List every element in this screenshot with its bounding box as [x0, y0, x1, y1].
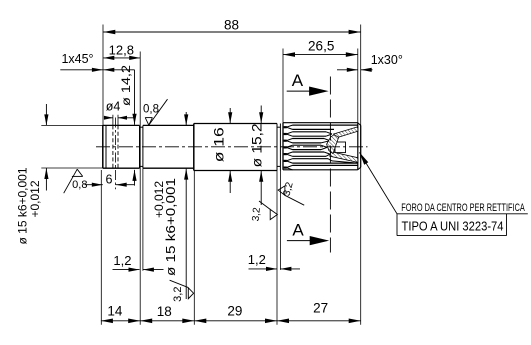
dimension 26,5 spline length: [283, 39, 358, 57]
dimension 1,2 groove2: [248, 252, 300, 271]
center hole upper hatched wing: [334, 127, 358, 138]
svg-text:ø 15,2: ø 15,2: [249, 123, 264, 167]
surface finish 0,8 on section S2: [143, 99, 168, 125]
extension line right face full: [360, 25, 362, 325]
groove G1 width 1.2 dia 14.2: [140, 125, 143, 168]
svg-text:1,2: 1,2: [113, 253, 131, 268]
extension line groove1 left edge full: [139, 52, 141, 325]
dimension chain 14: [101, 304, 140, 324]
section line A-A: [329, 77, 331, 253]
svg-text:FORO DA CENTRO PER RETTIFICA: FORO DA CENTRO PER RETTIFICA: [401, 202, 525, 214]
dimension dia15 k6 middle: [152, 112, 188, 299]
center hole cone hatched web: [327, 135, 339, 154]
svg-text:ø 15 k6+0,001: ø 15 k6+0,001: [164, 178, 178, 276]
svg-text:ø 16: ø 16: [212, 127, 227, 162]
svg-text:26,5: 26,5: [308, 39, 334, 54]
extension line spline left face top: [282, 49, 284, 123]
surface finish 3,2 groove1: [170, 280, 194, 302]
svg-text:1,2: 1,2: [248, 252, 266, 267]
chamfer dimension 1x30: [337, 53, 403, 72]
svg-text:1x45°: 1x45°: [61, 52, 93, 66]
center hole pilot bore: [335, 142, 346, 153]
dimension chain 18: [140, 304, 194, 323]
leader to centre hole: [360, 152, 528, 213]
extension groove2 right edge: [279, 171, 281, 270]
extension groove2 left edge full: [276, 171, 278, 325]
svg-text:TIPO A UNI 3223-74: TIPO A UNI 3223-74: [402, 219, 504, 234]
section arrow A bottom: [287, 221, 329, 246]
extension groove1 right edge: [142, 168, 144, 271]
center hole lower hatched wing: [330, 152, 358, 163]
svg-text:88: 88: [224, 17, 239, 32]
surface finish 3,2 groove2 right: [278, 181, 304, 206]
dimension dia15 k6 left: [16, 104, 103, 245]
dimension dia15,2 spline: [249, 106, 264, 206]
extension line right chamfer top: [357, 49, 359, 123]
shaft section S3 dia16: [194, 124, 277, 171]
center hole 60deg cone: [328, 142, 336, 153]
dimension 1,2 groove1: [113, 253, 164, 272]
extension line step S2/S3 bottom: [193, 171, 195, 325]
svg-text:29: 29: [227, 304, 242, 319]
svg-text:14: 14: [107, 304, 123, 319]
hole centerline: [115, 118, 117, 190]
chamfer label 1x45: [60, 52, 103, 72]
note box TIPO A UNI 3223-74: [397, 214, 507, 236]
surface finish 0,8 under section S1: [64, 169, 88, 193]
svg-text:+0,012: +0,012: [28, 180, 42, 217]
shaft section S2 dia15: [143, 125, 194, 168]
dimension 12,8: [103, 43, 140, 60]
svg-text:A: A: [292, 71, 304, 90]
svg-text:ø 14,2: ø 14,2: [119, 65, 133, 106]
dimension 6 hole position: [85, 173, 135, 187]
svg-text:ø4: ø4: [106, 100, 121, 114]
extension line left face bottom: [100, 170, 102, 325]
svg-text:18: 18: [157, 304, 172, 319]
dimension dia4 hole: [104, 100, 136, 120]
dimension 88 overall: [103, 17, 360, 34]
shaft centerline: [96, 146, 368, 148]
radial hole dia4 hidden lines: [113, 115, 118, 168]
step face S2/S3: [193, 124, 195, 171]
dimension chain 27: [277, 300, 361, 323]
dimension dia14,2 groove: [103, 65, 136, 186]
groove G2 width 1.2: [277, 124, 280, 171]
svg-text:ø 15 k6+0,001: ø 15 k6+0,001: [16, 167, 30, 244]
svg-text:6: 6: [106, 173, 113, 187]
svg-text:3,2: 3,2: [251, 207, 263, 222]
shaft section S1 dia15 left face with 1x45 chamfer: [103, 125, 140, 168]
svg-text:0,8: 0,8: [143, 103, 159, 115]
section arrow A top: [287, 71, 329, 96]
svg-text:12,8: 12,8: [109, 43, 134, 58]
note FORO DA CENTRO PER RETTIFICA: [401, 202, 525, 214]
svg-text:1x30°: 1x30°: [371, 53, 403, 67]
spline section dia15.2 teeth: [283, 123, 358, 170]
right end face with 1x30 chamfer: [358, 123, 361, 170]
svg-text:A: A: [292, 221, 304, 240]
dimension dia16: [212, 108, 233, 193]
surface finish 3,2 groove2 left: [251, 201, 278, 222]
extension line left face top: [102, 25, 104, 126]
dimension chain 29: [194, 304, 277, 323]
svg-text:3,2: 3,2: [172, 287, 184, 302]
svg-text:0,8: 0,8: [72, 179, 87, 191]
svg-text:27: 27: [313, 300, 328, 315]
